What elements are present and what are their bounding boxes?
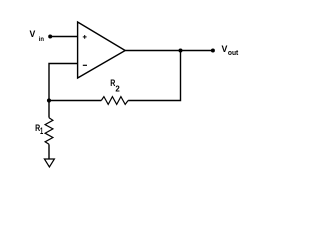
op-amp - input marker <box>83 64 87 66</box>
ground <box>44 159 54 167</box>
svg-text:1: 1 <box>40 126 43 136</box>
node Vin label <box>30 29 45 43</box>
wire feedback node to R1 <box>48 101 50 118</box>
svg-text:out: out <box>228 48 239 57</box>
wire R1 to ground <box>48 144 50 159</box>
wire op-amp output to Vout <box>125 50 213 52</box>
label R1 <box>35 123 43 136</box>
wire output node down to R2 <box>128 51 180 101</box>
node Vout terminal dot <box>211 49 215 53</box>
wire Vin to + input <box>50 36 77 38</box>
label R2 <box>110 78 120 93</box>
op-amp + input marker <box>83 35 87 39</box>
junction dot feedback node <box>47 98 51 102</box>
wire R2 to feedback node <box>49 100 101 102</box>
resistor R2 <box>101 97 128 105</box>
junction dot output node <box>179 49 183 53</box>
node Vin terminal dot <box>48 35 52 39</box>
svg-text:2: 2 <box>115 83 120 93</box>
wire - input to feedback node <box>49 64 78 101</box>
svg-text:V: V <box>30 29 37 39</box>
op-amp U1 <box>78 22 126 78</box>
resistor R1 <box>45 118 53 145</box>
svg-text:in: in <box>39 36 44 43</box>
node Vout label <box>222 43 239 57</box>
